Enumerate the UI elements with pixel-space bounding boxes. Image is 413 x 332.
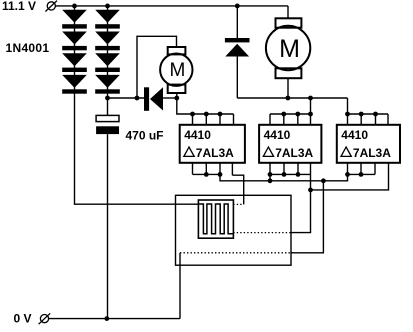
diode chain D5-D8 (second column) [95, 6, 120, 94]
node 0V-cap [104, 316, 109, 321]
svg-text:4410: 4410 [184, 128, 211, 142]
node IC1 pin3 [218, 172, 223, 177]
node IC2 pin5 [308, 112, 313, 117]
wire module ground (dotted) [180, 252, 291, 254]
diode chain D1-D4 (left column) [62, 6, 87, 94]
wire ground run [220, 174, 348, 180]
node motor2-bottom [286, 96, 291, 101]
svg-text:7AL3A: 7AL3A [275, 146, 313, 160]
motor M1 [160, 47, 192, 93]
svg-text:0 V: 0 V [14, 311, 32, 325]
svg-text:1N4001: 1N4001 [6, 41, 50, 55]
wire IC2 top pin stubs [270, 114, 311, 125]
node IC1 pin7 [204, 112, 209, 117]
node IC1 pin8 [190, 112, 195, 117]
node IC3 pin8 [345, 112, 350, 117]
node IC3 pin6 [373, 112, 378, 117]
wire IC3 bottom pin stubs [348, 163, 376, 175]
node IC1 pin6 [218, 112, 223, 117]
node rail-flyback2 [235, 4, 240, 9]
svg-text:4410: 4410 [341, 128, 368, 142]
diode D9 (horizontal, cathode left) [144, 87, 163, 111]
svg-text:M: M [169, 60, 185, 81]
logo U3 triangle [341, 147, 351, 156]
logo U1 triangle [184, 147, 194, 156]
wire IC1 bottom pin stubs [193, 163, 233, 175]
module receiver box [176, 195, 292, 265]
MOSFET U2 (Si4410) [259, 125, 321, 163]
node rail-col2 [105, 4, 110, 9]
wire IC3 top pin stubs [348, 114, 389, 125]
node ground-IC2 riser [268, 178, 273, 183]
wire motor2 bottom lead [287, 78, 289, 98]
wire IC3 source bus [348, 173, 376, 175]
wire IC1 drain feed [177, 98, 234, 114]
node motor1-bottom [174, 96, 179, 101]
connector block inside module [198, 200, 233, 238]
node IC2 pin2 [282, 172, 287, 177]
wire motor2 top lead [287, 6, 289, 18]
wire IC3 drain feed [348, 98, 389, 114]
svg-text:7AL3A: 7AL3A [196, 146, 234, 160]
svg-text:7AL3A: 7AL3A [353, 146, 391, 160]
wire IC1 gate to module [232, 175, 243, 204]
wire module ch2 (dotted) [233, 232, 291, 234]
svg-text:4410: 4410 [264, 128, 291, 142]
wire gate3 link [311, 163, 389, 190]
MOSFET U3 (Si4410) [337, 125, 400, 163]
logo U2 triangle [263, 147, 273, 156]
node gate2-gate3 [308, 188, 313, 193]
terminal 0V [39, 313, 51, 324]
node IC2 pin1 [268, 172, 273, 177]
node IC3 pin7 [359, 112, 364, 117]
node IC2 pin3 [296, 172, 301, 177]
wire IC2 bottom pin stubs [270, 163, 298, 175]
svg-text:11.1 V: 11.1 V [2, 0, 36, 13]
wire col1 down to module [75, 94, 199, 204]
MOSFET U1 (Si4410) [180, 125, 245, 163]
wire IC2 source bus [270, 173, 311, 175]
wire node-A to diode D9 [108, 97, 145, 99]
wire IC1 source bus [193, 173, 221, 175]
node IC2 drain tap [308, 96, 313, 101]
node rail-col1 [72, 4, 77, 9]
terminal +11.1V [45, 1, 57, 12]
node IC2 pin7 [281, 112, 286, 117]
diode D10 (flyback across motor2, cathode up) [225, 6, 250, 98]
wire D9 anode to motor1 bottom [163, 97, 177, 99]
svg-text:470 uF: 470 uF [126, 129, 164, 143]
wire top rail [56, 5, 289, 7]
wire col2 to capacitor [107, 94, 109, 115]
svg-text:M: M [279, 35, 300, 63]
node ground-V2 [321, 178, 326, 183]
wire IC2 gate down to module ch2 [291, 163, 311, 233]
wire module ch1 (dotted) [233, 203, 244, 205]
wire motor1 top loop [137, 36, 177, 98]
node motor1-top-return [135, 96, 140, 101]
wire IC2 source riser [269, 174, 271, 180]
wire IC2 drain feed [270, 98, 311, 114]
motor M2 [266, 18, 310, 78]
node cap-top [105, 96, 110, 101]
wire ground to module [291, 181, 324, 253]
wire 0V rail [49, 318, 180, 320]
wire IC1 top pin stubs [193, 114, 234, 125]
wire motor2 bus y98 [237, 97, 347, 99]
node IC1 pin2 [204, 172, 209, 177]
wire motor1 bottom lead [176, 93, 178, 98]
wire module ground riser to 0V [179, 253, 181, 319]
wire cap to 0V rail [107, 134, 109, 319]
node IC3 pin1 [345, 172, 350, 177]
node IC3 pin2 [359, 172, 364, 177]
node IC2 pin6 [295, 112, 300, 117]
capacitor C1 470uF [96, 115, 119, 134]
